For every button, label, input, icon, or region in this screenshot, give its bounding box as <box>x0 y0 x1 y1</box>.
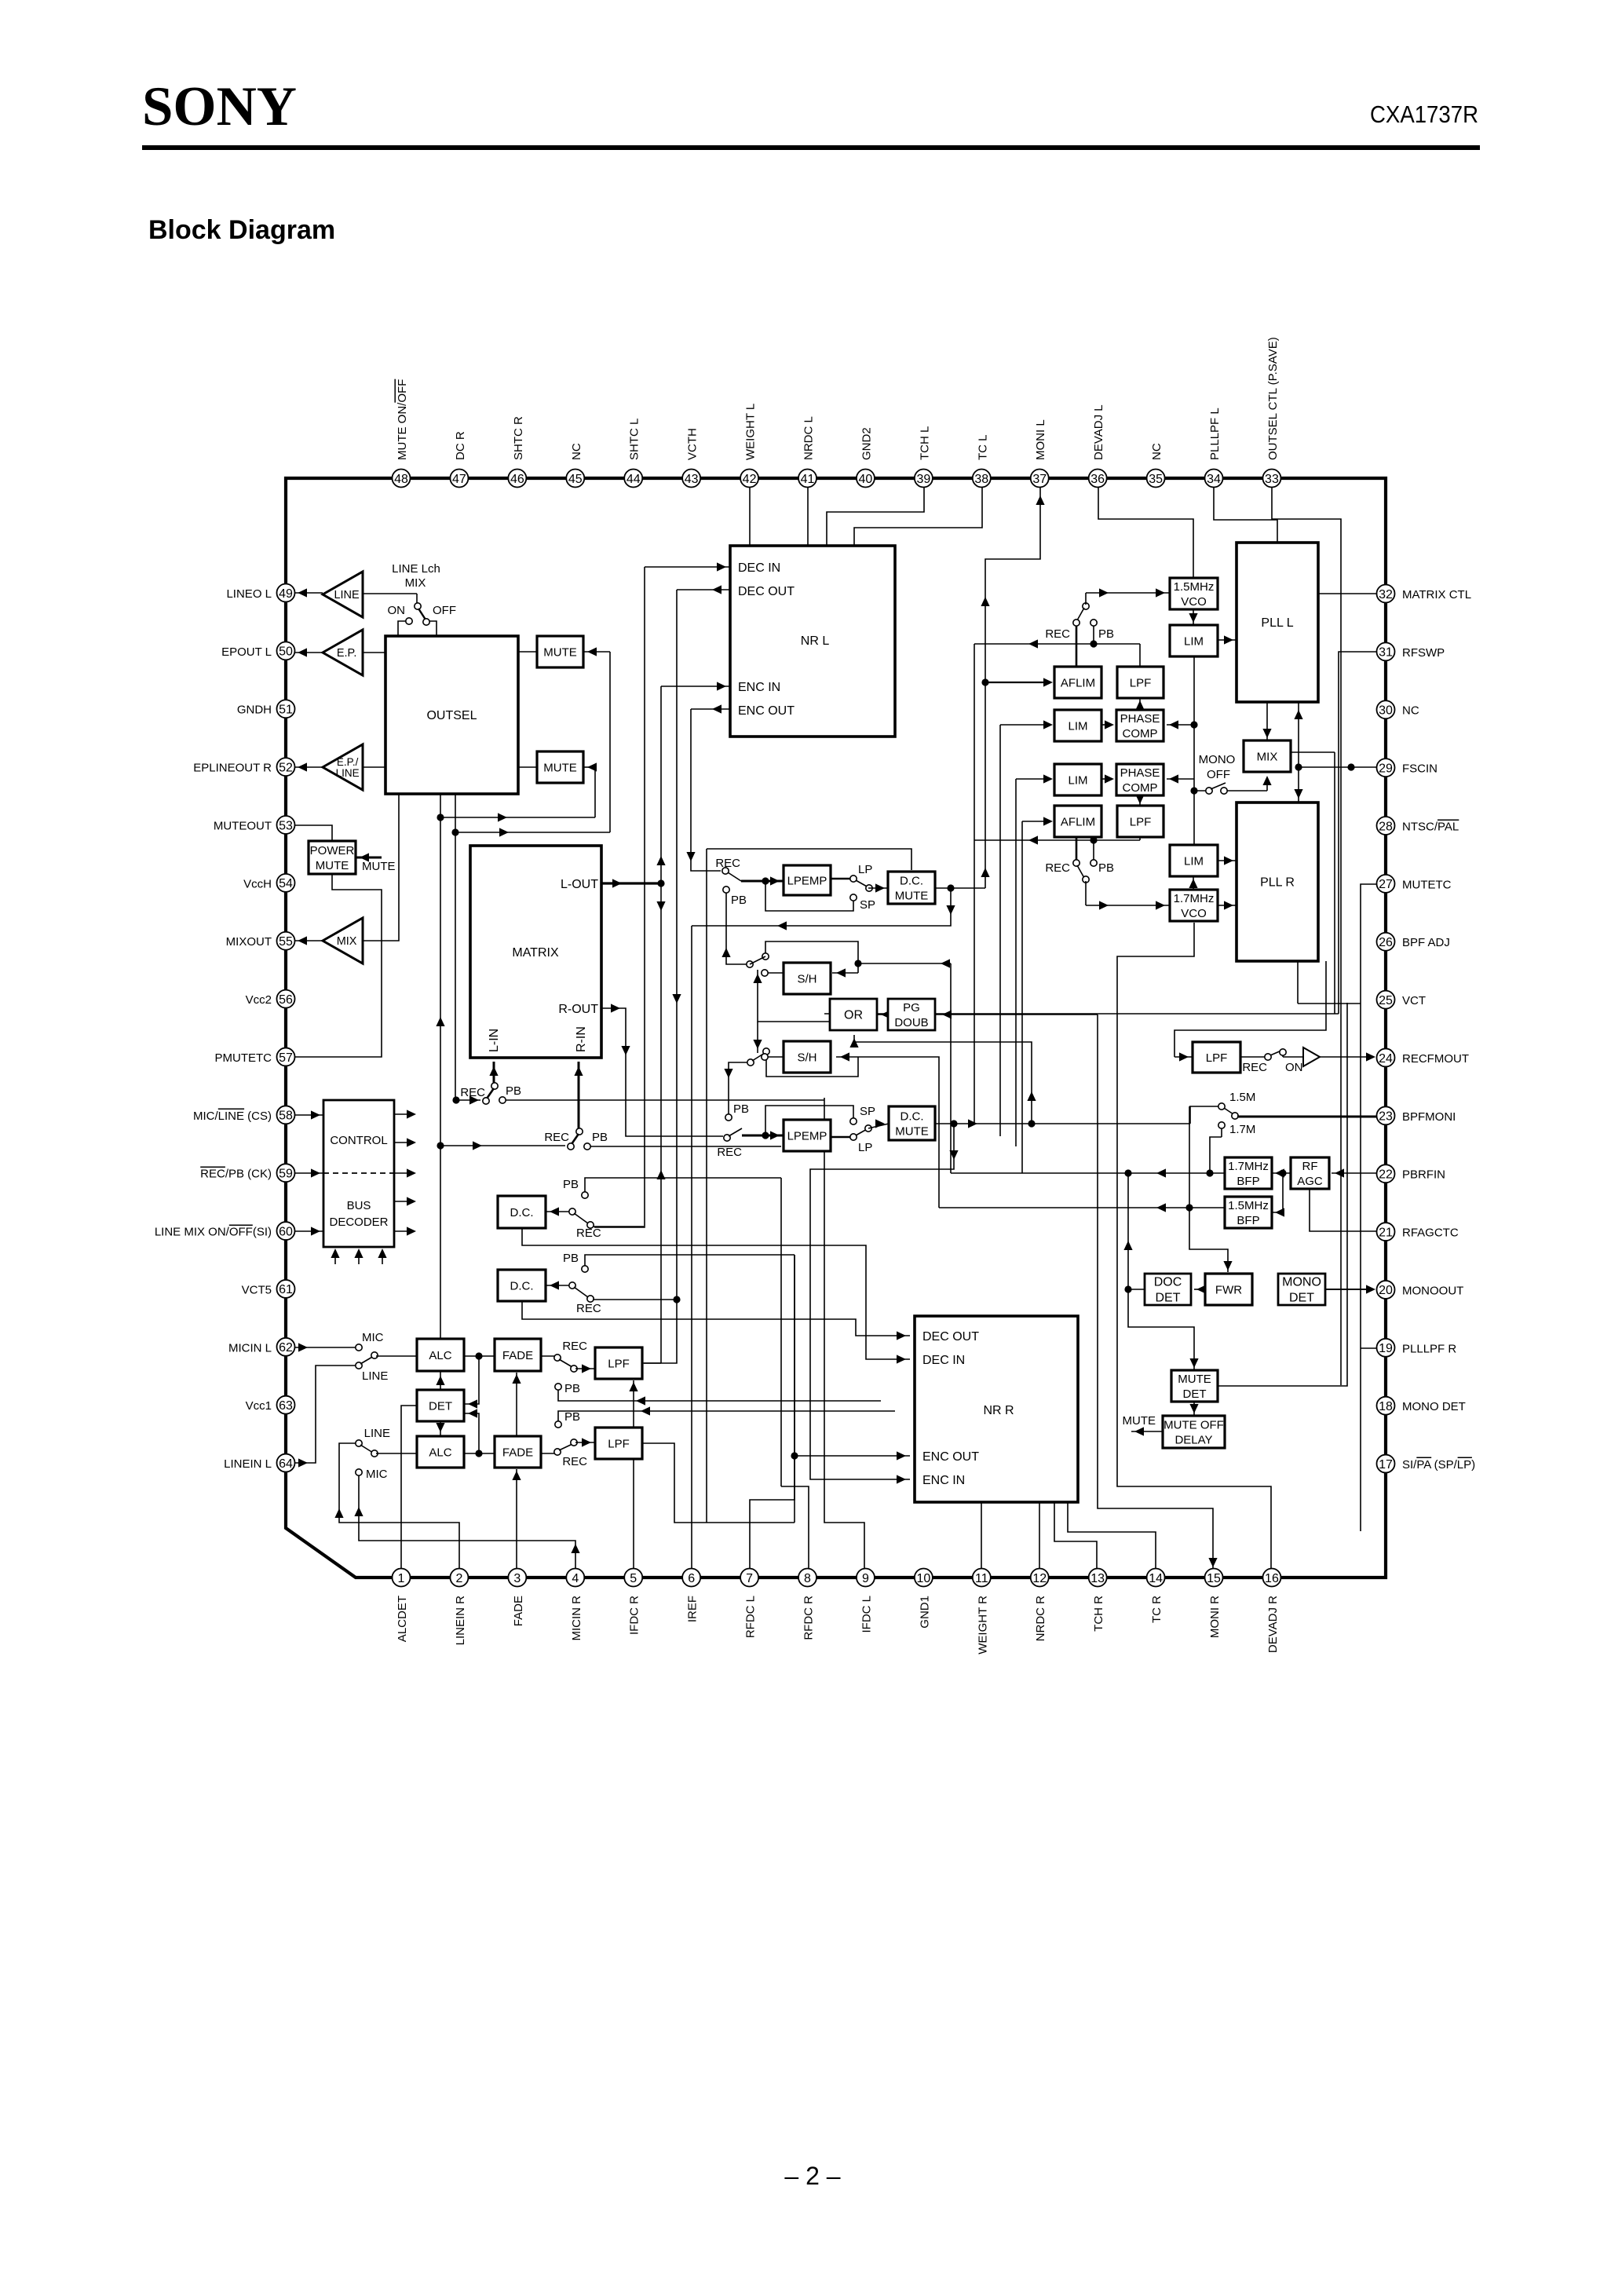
svg-text:Vcc1: Vcc1 <box>246 1399 272 1413</box>
svg-text:NR L: NR L <box>801 634 830 648</box>
svg-text:VccH: VccH <box>243 877 272 890</box>
svg-text:47: 47 <box>452 473 466 486</box>
svg-text:45: 45 <box>568 473 583 486</box>
svg-text:MIXOUT: MIXOUT <box>226 935 272 949</box>
svg-text:D.C.: D.C. <box>510 1206 534 1219</box>
svg-text:MUTE OFF: MUTE OFF <box>1164 1418 1224 1431</box>
svg-text:26: 26 <box>1379 936 1393 949</box>
svg-text:MICIN L: MICIN L <box>228 1341 272 1355</box>
svg-text:LPF: LPF <box>1206 1051 1228 1065</box>
svg-text:57: 57 <box>279 1051 293 1065</box>
svg-text:LPF: LPF <box>1130 815 1152 828</box>
svg-text:NC: NC <box>1150 443 1164 460</box>
svg-text:38: 38 <box>974 473 988 486</box>
svg-text:MONO: MONO <box>1199 753 1236 766</box>
svg-text:PMUTETC: PMUTETC <box>215 1051 272 1065</box>
svg-text:DET: DET <box>429 1399 452 1413</box>
svg-text:MUTE: MUTE <box>895 889 929 902</box>
svg-text:ON: ON <box>1285 1061 1303 1074</box>
svg-text:DEVADJ R: DEVADJ R <box>1266 1596 1280 1653</box>
svg-text:PHASE: PHASE <box>1120 766 1160 780</box>
svg-text:DOUB: DOUB <box>894 1016 928 1029</box>
svg-text:GND2: GND2 <box>860 427 873 460</box>
svg-text:32: 32 <box>1379 588 1393 601</box>
svg-text:LIM: LIM <box>1184 634 1204 648</box>
svg-text:AFLIM: AFLIM <box>1061 676 1095 689</box>
svg-text:MUTE: MUTE <box>1178 1373 1211 1386</box>
svg-text:COMP: COMP <box>1123 781 1158 795</box>
svg-text:MONO: MONO <box>1282 1276 1321 1289</box>
svg-text:41: 41 <box>801 473 815 486</box>
svg-text:FADE: FADE <box>512 1596 525 1626</box>
svg-text:LPF: LPF <box>608 1357 630 1370</box>
svg-text:1.7MHz: 1.7MHz <box>1228 1160 1269 1173</box>
svg-text:10: 10 <box>916 1572 930 1585</box>
svg-text:DEC IN: DEC IN <box>922 1354 965 1367</box>
svg-text:LINE MIX ON/OFF(SI): LINE MIX ON/OFF(SI) <box>155 1226 272 1239</box>
svg-text:LINE: LINE <box>364 1427 390 1440</box>
svg-text:NC: NC <box>1402 704 1419 718</box>
svg-text:1.7M: 1.7M <box>1229 1123 1255 1136</box>
svg-text:20: 20 <box>1379 1284 1393 1297</box>
svg-text:LINEIN R: LINEIN R <box>454 1596 467 1646</box>
svg-text:MUTE: MUTE <box>362 860 396 873</box>
svg-text:DET: DET <box>1289 1292 1314 1305</box>
svg-text:56: 56 <box>279 993 293 1007</box>
svg-text:61: 61 <box>279 1283 293 1296</box>
svg-text:LINEIN L: LINEIN L <box>224 1457 272 1471</box>
svg-text:REC: REC <box>544 1131 569 1144</box>
svg-text:54: 54 <box>279 877 293 890</box>
svg-text:PLLLPF L: PLLLPF L <box>1208 408 1222 460</box>
svg-text:9: 9 <box>862 1572 869 1585</box>
svg-text:MATRIX: MATRIX <box>512 946 559 960</box>
svg-text:1.5MHz: 1.5MHz <box>1174 580 1215 594</box>
svg-text:RFDC R: RFDC R <box>802 1596 816 1640</box>
svg-text:S/H: S/H <box>797 1051 816 1064</box>
svg-text:12: 12 <box>1032 1572 1047 1585</box>
svg-text:23: 23 <box>1379 1110 1393 1124</box>
svg-text:60: 60 <box>279 1225 293 1238</box>
svg-text:40: 40 <box>859 473 873 486</box>
svg-text:SHTC L: SHTC L <box>628 419 641 460</box>
svg-text:E.P.: E.P. <box>337 647 357 660</box>
svg-text:51: 51 <box>279 704 293 717</box>
svg-text:LPEMP: LPEMP <box>787 874 827 887</box>
svg-text:LPF: LPF <box>608 1437 630 1450</box>
svg-text:MONO DET: MONO DET <box>1402 1400 1466 1413</box>
svg-text:REC: REC <box>576 1302 601 1315</box>
svg-text:L-OUT: L-OUT <box>561 878 598 891</box>
svg-text:ENC OUT: ENC OUT <box>738 704 795 718</box>
svg-text:PHASE: PHASE <box>1120 712 1160 726</box>
svg-text:1: 1 <box>398 1572 405 1585</box>
svg-text:8: 8 <box>804 1572 811 1585</box>
svg-text:MONI R: MONI R <box>1208 1596 1222 1638</box>
svg-text:36: 36 <box>1090 473 1105 486</box>
svg-text:3: 3 <box>513 1572 521 1585</box>
svg-text:34: 34 <box>1207 473 1221 486</box>
svg-text:NRDC R: NRDC R <box>1034 1596 1047 1641</box>
svg-text:35: 35 <box>1149 473 1163 486</box>
svg-text:SHTC R: SHTC R <box>512 416 525 460</box>
svg-text:29: 29 <box>1379 762 1393 775</box>
svg-text:33: 33 <box>1265 473 1279 486</box>
svg-text:MONI L: MONI L <box>1034 419 1047 460</box>
svg-text:MIX: MIX <box>405 576 426 590</box>
svg-text:Vcc2: Vcc2 <box>246 993 272 1007</box>
svg-text:FWR: FWR <box>1215 1283 1242 1296</box>
svg-text:VCT5: VCT5 <box>242 1283 272 1296</box>
svg-text:REC/PB (CK): REC/PB (CK) <box>200 1168 272 1181</box>
svg-text:SP: SP <box>860 898 875 912</box>
svg-text:WEIGHT L: WEIGHT L <box>744 404 758 460</box>
svg-text:PBRFIN: PBRFIN <box>1402 1168 1445 1182</box>
svg-text:MICIN R: MICIN R <box>570 1596 583 1641</box>
svg-text:PB: PB <box>1098 627 1114 641</box>
svg-text:DEC OUT: DEC OUT <box>738 585 795 598</box>
svg-text:BUS: BUS <box>347 1199 371 1212</box>
svg-text:POWER: POWER <box>310 844 355 857</box>
svg-text:52: 52 <box>279 761 293 774</box>
svg-text:GND1: GND1 <box>918 1596 931 1629</box>
svg-text:PB: PB <box>1098 861 1114 875</box>
svg-text:VCTH: VCTH <box>686 428 700 460</box>
svg-text:PG: PG <box>903 1001 920 1015</box>
svg-text:53: 53 <box>279 819 293 832</box>
svg-text:21: 21 <box>1379 1226 1393 1239</box>
svg-text:ENC IN: ENC IN <box>922 1474 965 1487</box>
svg-text:39: 39 <box>916 473 930 486</box>
svg-text:PB: PB <box>733 1102 749 1116</box>
svg-text:VCO: VCO <box>1181 907 1207 920</box>
svg-text:59: 59 <box>279 1168 293 1181</box>
svg-text:MUTE: MUTE <box>895 1124 929 1138</box>
svg-text:18: 18 <box>1379 1400 1393 1413</box>
svg-text:RECFMOUT: RECFMOUT <box>1402 1052 1469 1066</box>
svg-text:TC R: TC R <box>1150 1596 1164 1623</box>
svg-text:MUTETC: MUTETC <box>1402 878 1452 891</box>
svg-text:E.P./: E.P./ <box>337 756 359 768</box>
svg-text:R-IN: R-IN <box>575 1026 588 1052</box>
svg-text:37: 37 <box>1032 473 1047 486</box>
svg-text:BPFMONI: BPFMONI <box>1402 1110 1456 1124</box>
svg-text:LINE Lch: LINE Lch <box>392 562 440 576</box>
svg-text:RFDC L: RFDC L <box>744 1596 758 1638</box>
svg-text:EPOUT L: EPOUT L <box>221 645 272 659</box>
svg-text:6: 6 <box>688 1572 695 1585</box>
svg-text:REC: REC <box>715 857 740 870</box>
svg-text:DEC IN: DEC IN <box>738 561 780 575</box>
svg-text:ON: ON <box>388 604 406 617</box>
svg-text:REC: REC <box>1045 861 1070 875</box>
svg-text:WEIGHT R: WEIGHT R <box>976 1596 989 1654</box>
svg-text:46: 46 <box>510 473 524 486</box>
svg-text:SONY: SONY <box>142 76 297 137</box>
svg-text:DEC OUT: DEC OUT <box>922 1330 979 1344</box>
svg-text:LINEO L: LINEO L <box>226 587 272 601</box>
svg-text:PB: PB <box>563 1252 579 1265</box>
svg-text:MONOOUT: MONOOUT <box>1402 1284 1463 1297</box>
svg-text:4: 4 <box>572 1572 579 1585</box>
svg-text:Block Diagram: Block Diagram <box>148 215 335 245</box>
svg-text:43: 43 <box>685 473 699 486</box>
svg-text:DEVADJ L: DEVADJ L <box>1092 404 1105 460</box>
svg-text:58: 58 <box>279 1110 293 1123</box>
svg-text:55: 55 <box>279 935 293 949</box>
svg-text:LPF: LPF <box>1130 676 1152 689</box>
svg-text:PB: PB <box>563 1178 579 1191</box>
svg-text:S/H: S/H <box>797 972 816 985</box>
svg-text:VCT: VCT <box>1402 994 1426 1007</box>
svg-text:MIX: MIX <box>1257 750 1278 763</box>
svg-text:SI/PA (SP/LP): SI/PA (SP/LP) <box>1402 1458 1475 1472</box>
svg-text:RFSWP: RFSWP <box>1402 646 1445 660</box>
svg-text:DOC: DOC <box>1154 1276 1182 1289</box>
svg-text:D.C.: D.C. <box>901 1110 924 1123</box>
svg-text:NRDC L: NRDC L <box>802 416 816 460</box>
svg-text:ALC: ALC <box>429 1349 451 1362</box>
svg-text:CONTROL: CONTROL <box>330 1134 387 1147</box>
svg-text:13: 13 <box>1090 1572 1105 1585</box>
svg-text:OFF: OFF <box>1207 768 1230 781</box>
svg-text:5: 5 <box>630 1572 637 1585</box>
svg-text:DET: DET <box>1183 1387 1207 1401</box>
svg-text:R-OUT: R-OUT <box>558 1003 598 1016</box>
svg-text:MUTE: MUTE <box>316 859 349 872</box>
svg-text:MIX: MIX <box>337 935 357 948</box>
svg-text:MUTE ON/OFF: MUTE ON/OFF <box>396 379 409 460</box>
svg-text:62: 62 <box>279 1341 293 1355</box>
svg-text:25: 25 <box>1379 994 1393 1007</box>
svg-text:PLL R: PLL R <box>1260 876 1295 890</box>
svg-text:14: 14 <box>1149 1572 1163 1585</box>
svg-text:IFDC L: IFDC L <box>860 1596 873 1633</box>
svg-text:FADE: FADE <box>502 1446 533 1459</box>
svg-text:BPF ADJ: BPF ADJ <box>1402 936 1450 949</box>
svg-text:MIC: MIC <box>366 1468 388 1481</box>
svg-text:MUTE: MUTE <box>1123 1414 1156 1428</box>
svg-text:REC: REC <box>562 1340 587 1353</box>
svg-text:GNDH: GNDH <box>237 704 272 717</box>
svg-text:ENC IN: ENC IN <box>738 681 780 694</box>
svg-text:COMP: COMP <box>1123 727 1158 740</box>
svg-text:TCH L: TCH L <box>918 426 931 460</box>
svg-text:49: 49 <box>279 587 293 601</box>
svg-text:OR: OR <box>844 1009 863 1022</box>
svg-text:DECODER: DECODER <box>329 1216 388 1229</box>
svg-text:MIC/LINE (CS): MIC/LINE (CS) <box>193 1110 272 1123</box>
svg-text:17: 17 <box>1379 1458 1393 1472</box>
svg-text:PB: PB <box>506 1084 521 1098</box>
svg-text:REC: REC <box>562 1455 587 1468</box>
svg-text:LIM: LIM <box>1184 854 1204 868</box>
svg-text:LPEMP: LPEMP <box>787 1129 827 1143</box>
svg-text:NC: NC <box>570 443 583 460</box>
svg-text:D.C.: D.C. <box>510 1279 534 1292</box>
svg-text:1.7MHz: 1.7MHz <box>1174 892 1215 905</box>
svg-text:OFF: OFF <box>433 604 456 617</box>
svg-text:PB: PB <box>564 1410 580 1424</box>
svg-text:44: 44 <box>627 473 641 486</box>
svg-text:VCO: VCO <box>1181 595 1207 609</box>
svg-text:IFDC R: IFDC R <box>628 1596 641 1635</box>
svg-text:MIC: MIC <box>362 1331 384 1344</box>
svg-text:MUTEOUT: MUTEOUT <box>214 819 272 832</box>
svg-text:REC: REC <box>717 1146 742 1159</box>
svg-text:CXA1737R: CXA1737R <box>1370 101 1478 128</box>
svg-text:DET: DET <box>1156 1292 1181 1305</box>
svg-text:LIM: LIM <box>1068 719 1087 733</box>
svg-text:MUTE: MUTE <box>543 645 577 659</box>
svg-text:MUTE: MUTE <box>543 761 577 774</box>
svg-text:BFP: BFP <box>1237 1175 1259 1188</box>
svg-text:PB: PB <box>592 1131 608 1144</box>
svg-text:PB: PB <box>564 1382 580 1395</box>
svg-text:MATRIX CTL: MATRIX CTL <box>1402 588 1471 601</box>
svg-text:16: 16 <box>1265 1572 1279 1585</box>
svg-text:PLL L: PLL L <box>1261 616 1293 630</box>
svg-text:OUTSEL: OUTSEL <box>426 709 477 722</box>
svg-text:27: 27 <box>1379 878 1393 891</box>
svg-text:REC: REC <box>1242 1061 1267 1074</box>
svg-text:22: 22 <box>1379 1168 1393 1182</box>
svg-text:– 2 –: – 2 – <box>784 2162 840 2190</box>
svg-text:63: 63 <box>279 1399 293 1413</box>
svg-text:2: 2 <box>455 1572 462 1585</box>
svg-text:DC R: DC R <box>454 431 467 460</box>
svg-text:RF: RF <box>1302 1160 1318 1173</box>
svg-text:FADE: FADE <box>502 1349 533 1362</box>
svg-text:1.5M: 1.5M <box>1229 1091 1255 1104</box>
svg-text:BFP: BFP <box>1237 1214 1259 1227</box>
svg-text:LP: LP <box>858 1141 872 1154</box>
svg-text:ALCDET: ALCDET <box>396 1596 409 1642</box>
svg-text:FSCIN: FSCIN <box>1402 762 1438 776</box>
svg-text:15: 15 <box>1207 1572 1221 1585</box>
svg-text:ALC: ALC <box>429 1446 451 1459</box>
svg-text:NTSC/PAL: NTSC/PAL <box>1402 820 1459 833</box>
svg-text:ENC OUT: ENC OUT <box>922 1450 979 1464</box>
svg-text:LP: LP <box>858 863 872 876</box>
svg-text:LIM: LIM <box>1068 773 1087 787</box>
svg-text:11: 11 <box>975 1572 988 1585</box>
svg-text:SP: SP <box>860 1105 875 1118</box>
svg-text:28: 28 <box>1379 820 1393 833</box>
svg-text:NR R: NR R <box>983 1404 1014 1417</box>
svg-text:24: 24 <box>1379 1052 1393 1066</box>
svg-text:AFLIM: AFLIM <box>1061 815 1095 828</box>
svg-text:LINE: LINE <box>336 767 360 779</box>
svg-text:TC L: TC L <box>976 434 989 460</box>
svg-text:REC: REC <box>1045 627 1070 641</box>
svg-text:OUTSEL CTL (P.SAVE): OUTSEL CTL (P.SAVE) <box>1266 337 1280 460</box>
svg-text:50: 50 <box>279 645 293 659</box>
svg-text:1.5MHz: 1.5MHz <box>1228 1199 1269 1212</box>
svg-text:RFAGCTC: RFAGCTC <box>1402 1227 1459 1240</box>
svg-text:AGC: AGC <box>1297 1175 1323 1188</box>
svg-text:PB: PB <box>731 894 747 907</box>
svg-text:D.C.: D.C. <box>900 874 923 887</box>
svg-text:PLLLPF R: PLLLPF R <box>1402 1342 1456 1355</box>
svg-text:30: 30 <box>1379 704 1393 718</box>
svg-text:19: 19 <box>1379 1342 1393 1355</box>
svg-text:31: 31 <box>1379 646 1393 660</box>
svg-text:7: 7 <box>746 1572 753 1585</box>
svg-text:48: 48 <box>394 473 408 486</box>
svg-text:IREF: IREF <box>686 1596 700 1622</box>
svg-text:LINE: LINE <box>334 589 360 601</box>
svg-text:LINE: LINE <box>362 1369 388 1383</box>
svg-text:REC: REC <box>576 1227 601 1240</box>
svg-text:TCH R: TCH R <box>1092 1596 1105 1632</box>
svg-text:DELAY: DELAY <box>1174 1433 1212 1446</box>
svg-text:L-IN: L-IN <box>488 1029 501 1052</box>
svg-text:EPLINEOUT R: EPLINEOUT R <box>193 762 272 775</box>
svg-text:64: 64 <box>279 1457 293 1471</box>
svg-text:42: 42 <box>743 473 757 486</box>
